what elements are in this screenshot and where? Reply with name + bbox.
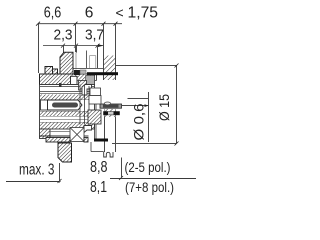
svg-text:6: 6 [85, 5, 94, 22]
svg-text:Ø 0,6: Ø 0,6 [131, 103, 147, 140]
svg-text:<: < [116, 5, 124, 21]
svg-text:max. 3: max. 3 [19, 162, 55, 179]
svg-text:(2-5 pol.): (2-5 pol.) [125, 159, 171, 175]
svg-text:8,8: 8,8 [90, 159, 108, 176]
svg-text:2,3: 2,3 [54, 27, 73, 44]
svg-text:(7+8 pol.): (7+8 pol.) [125, 179, 174, 195]
svg-text:8,1: 8,1 [90, 179, 107, 196]
svg-text:Ø 15: Ø 15 [156, 94, 172, 121]
svg-text:1,75: 1,75 [128, 5, 159, 22]
svg-text:3,7: 3,7 [85, 27, 104, 44]
svg-text:6,6: 6,6 [44, 5, 62, 22]
